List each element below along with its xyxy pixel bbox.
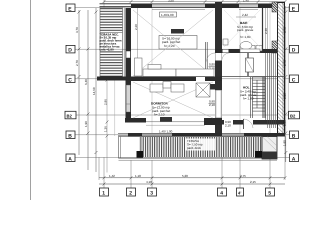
baie diagonals: [224, 10, 260, 47]
grid bubble C right: [290, 75, 299, 83]
svg-text:1,18: 1,18: [135, 174, 141, 178]
stair rail: [262, 77, 264, 118]
duct lines right of bath: [265, 8, 267, 49]
wall segment at col4 south: [204, 118, 222, 125]
svg-text:2,20: 2,20: [134, 24, 138, 30]
balcony south: [119, 137, 278, 161]
balcony label: [185, 139, 215, 151]
grid column 1: [103, 157, 105, 188]
svg-text:2,15: 2,15: [250, 180, 256, 184]
wall above B (y122) west stub: [125, 118, 146, 123]
window south left: [142, 134, 172, 136]
east thick wall (col 4): [208, 2, 222, 136]
svg-text:1,90: 1,90: [282, 140, 286, 146]
svg-text:3,50: 3,50: [168, 0, 174, 2]
hol door leaf: [246, 58, 254, 72]
svg-text:2: 2: [129, 191, 132, 197]
living door arc: [207, 53, 216, 62]
axis bubble 1: [100, 188, 109, 196]
living ref line: [137, 8, 139, 77]
top dimension line: [104, 1, 285, 3]
hol label: [240, 86, 257, 101]
parapet lines dormitor south: [146, 121, 205, 123]
dim ticks row1: [103, 176, 287, 179]
svg-text:1,40/1,00: 1,40/1,00: [161, 13, 174, 17]
terrace hatch (west strip): [100, 8, 124, 78]
balcony SE block: [262, 137, 277, 160]
left dim line c: [95, 8, 97, 172]
window label south: [159, 130, 173, 134]
svg-text:B: B: [292, 133, 296, 139]
svg-text:5,28: 5,28: [182, 174, 188, 178]
dormitor tag: [160, 117, 172, 122]
left dim line b: [87, 10, 89, 170]
left dim ticks: [78, 11, 98, 155]
living diagonals: [133, 10, 213, 76]
svg-text:2,42: 2,42: [242, 13, 248, 17]
furniture: living sofa row: [135, 58, 215, 77]
svg-text:1,40/ 1,00: 1,40/ 1,00: [159, 130, 173, 134]
svg-text:2,70: 2,70: [75, 60, 79, 66]
door label on hall south wall: [224, 120, 233, 128]
terrace text block: [100, 33, 122, 52]
svg-text:3,70: 3,70: [75, 27, 79, 33]
stairs: [253, 77, 266, 111]
svg-text:2,10: 2,10: [209, 103, 215, 107]
svg-text:1,40: 1,40: [243, 0, 249, 2]
dim ticks row2: [103, 183, 272, 186]
west edge extension: [98, 157, 100, 180]
svg-text:3,70: 3,70: [282, 27, 286, 33]
baie interior dim line: [236, 16, 256, 18]
stair shaft east vertical lines: [266, 53, 276, 128]
left dim line a: [78, 10, 80, 155]
svg-text:D: D: [292, 48, 296, 54]
window label north box: [160, 12, 177, 17]
window W1 north living: [152, 4, 205, 7]
grid column 4': [239, 136, 241, 188]
baie label: [237, 13, 254, 39]
right dim line: [285, 6, 287, 162]
svg-text:A: A: [292, 156, 296, 162]
grid bubble B2 right: [289, 111, 300, 119]
grid line E: [75, 7, 290, 9]
door label 0,80/2,10: [209, 63, 215, 71]
svg-text:5: 5: [268, 191, 271, 197]
svg-text:4: 4: [220, 191, 223, 197]
furniture: bath fixtures: [223, 39, 260, 53]
door label 0,90/2,10 dormitor: [209, 100, 215, 108]
svg-text:B: B: [68, 133, 72, 139]
svg-text:2,75: 2,75: [240, 174, 246, 178]
west wall (living/terrace divider): [115, 8, 131, 136]
bottom dim texts row1: [109, 174, 246, 178]
stair left rail: [250, 77, 252, 118]
svg-text:D: D: [68, 48, 72, 54]
hol door arc: [222, 53, 230, 61]
svg-text:1: 1: [102, 191, 105, 197]
grid line A: [75, 157, 290, 159]
svg-text:2,70: 2,70: [282, 60, 286, 66]
bottom dim row 1: [99, 177, 285, 179]
svg-text:B2: B2: [67, 113, 73, 118]
living east partition: [205, 42, 207, 77]
svg-text:pard. deck: pard. deck: [187, 146, 202, 150]
dormitor label: [151, 102, 170, 117]
svg-text:h= 2,10: h= 2,10: [154, 112, 165, 116]
svg-text:4': 4': [238, 190, 241, 195]
bottom dim texts row2: [146, 180, 256, 184]
svg-text:2,10: 2,10: [225, 124, 231, 128]
right dim ticks: [284, 11, 287, 155]
svg-text:2,30: 2,30: [282, 93, 286, 99]
south wall (B line): [118, 133, 285, 137]
column at D: [272, 41, 278, 53]
svg-text:h= 1,80: h= 1,80: [243, 96, 254, 100]
balcony post SW: [137, 151, 144, 158]
grid column 3: [151, 160, 153, 188]
stair hall south wall: [222, 119, 285, 129]
grid bubble B left: [66, 131, 75, 139]
grid bubble D left: [66, 45, 75, 53]
north wall: [100, 4, 286, 10]
grid bubble C left: [66, 75, 75, 83]
grid column 5: [269, 136, 271, 188]
wall C horizontal: [97, 77, 285, 82]
grid line B2: [75, 114, 290, 116]
svg-text:1,42: 1,42: [109, 174, 115, 178]
east edge extension: [284, 136, 286, 180]
grid bubble B2 left: [65, 111, 76, 119]
east exterior wall: [278, 2, 285, 136]
grid bubble E right: [290, 4, 299, 12]
grid bubble E left: [66, 4, 75, 12]
svg-text:2,96: 2,96: [104, 99, 108, 105]
bottom dim row 2: [99, 183, 285, 185]
right dim texts (rotated): [282, 27, 286, 146]
grid column 4: [221, 136, 223, 188]
svg-text:C: C: [292, 77, 296, 83]
grid bubble A left: [66, 154, 75, 162]
axis bubble 2: [127, 188, 136, 196]
svg-text:C: C: [68, 77, 72, 83]
svg-text:A: A: [68, 156, 72, 162]
grid bubble A right: [290, 154, 299, 162]
living room label box: [159, 36, 197, 50]
grid bubble B right: [290, 131, 299, 139]
axis bubble 4: [218, 188, 227, 196]
axis bubble 5: [266, 188, 275, 196]
svg-text:1,90: 1,90: [84, 121, 88, 127]
west inner dim line: [106, 80, 108, 173]
left dim texts (rotated): [75, 27, 96, 127]
svg-text:cota +2,80: cota +2,80: [100, 48, 114, 52]
wall D (baie/hol divider): [215, 49, 277, 53]
svg-text:6,40: 6,40: [84, 79, 88, 85]
grid line D: [75, 48, 290, 50]
hol partition (x248): [247, 53, 249, 76]
svg-text:B2: B2: [290, 113, 296, 118]
svg-text:14,60: 14,60: [92, 87, 96, 95]
sheet border line: [30, 0, 32, 200]
svg-text:2,30: 2,30: [264, 28, 268, 34]
window W2 north bath: [239, 4, 258, 7]
furniture: bed dormitor: [150, 82, 210, 98]
axis bubble 4': [237, 188, 244, 196]
grid line B: [75, 134, 290, 136]
living room label tag: [171, 29, 184, 34]
svg-text:1,90: 1,90: [282, 120, 286, 126]
svg-text:pard. gresie: pard. gresie: [237, 28, 254, 32]
svg-text:1,36: 1,36: [104, 126, 108, 132]
grid line C: [75, 78, 290, 80]
NE corner column: [272, 2, 278, 12]
window south right: [222, 134, 244, 136]
axis bubble 3: [148, 188, 157, 196]
svg-text:3: 3: [150, 191, 153, 197]
grid column 2: [130, 160, 132, 188]
dormitor diagonals: [133, 82, 213, 118]
hol counter row: [240, 46, 262, 52]
bath partition east: [262, 8, 264, 49]
stair arrow: [256, 80, 258, 108]
grid bubble D right: [290, 45, 299, 53]
svg-text:4,18: 4,18: [146, 180, 152, 184]
